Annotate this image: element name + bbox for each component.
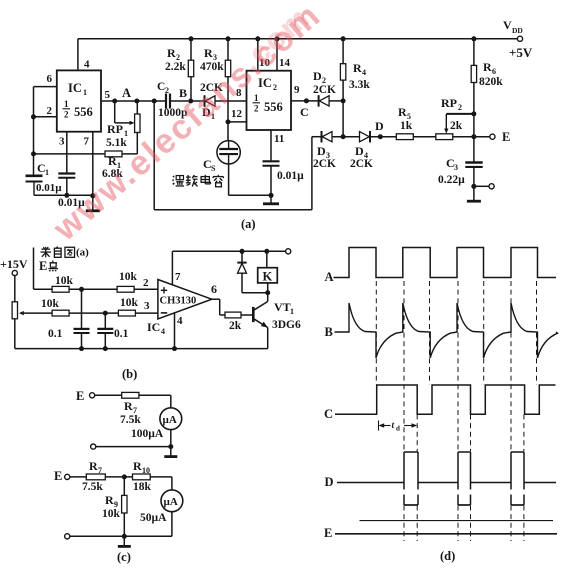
- svg-text:(a): (a): [241, 217, 256, 231]
- node A rail wire: [112, 99, 117, 104]
- capacitor 0.1 right: [104, 313, 106, 329]
- svg-text:CH3130: CH3130: [160, 296, 197, 307]
- svg-text:18k: 18k: [133, 481, 152, 493]
- waveform D baseline segments: [337, 482, 404, 484]
- svg-text:10k: 10k: [120, 297, 139, 309]
- opamp - input mark: [161, 312, 167, 314]
- wire between row1 resistors: [69, 288, 117, 290]
- wire row2 from wiper: [24, 312, 52, 314]
- wire top +5V supply rail: [78, 38, 518, 40]
- pin 4 wire IC1 to rail: [77, 39, 79, 71]
- ground lower meter circuit: [123, 536, 125, 546]
- diode D1 2CK: [204, 95, 206, 107]
- svg-text:1: 1: [64, 99, 69, 109]
- pin 10 wire: [257, 39, 259, 71]
- svg-text:1: 1: [254, 93, 259, 103]
- junction dots on supply rail: [189, 36, 194, 41]
- wire meter down: [170, 430, 172, 447]
- svg-text:+15V: +15V: [0, 257, 28, 271]
- svg-text:+5V: +5V: [509, 45, 533, 60]
- svg-text:6: 6: [47, 73, 53, 85]
- svg-text:6: 6: [492, 67, 496, 76]
- svg-text:556: 556: [74, 105, 93, 119]
- wire E to R8: [70, 476, 87, 478]
- meter uA 50uA: [161, 490, 183, 512]
- svg-text:0.1: 0.1: [48, 328, 63, 340]
- svg-text:E: E: [324, 526, 332, 540]
- svg-text:d: d: [396, 425, 400, 433]
- svg-text:DD: DD: [512, 26, 523, 35]
- svg-text:1: 1: [83, 88, 87, 97]
- wire E to R7: [95, 394, 122, 396]
- resistor R7 upper: [122, 392, 139, 398]
- resistor R4: [342, 39, 344, 64]
- svg-text:D: D: [375, 119, 384, 133]
- ground at IC1 pin 7: [92, 196, 94, 211]
- svg-text:7: 7: [84, 136, 90, 148]
- wire D3 left corner: [312, 136, 322, 138]
- opamp + input mark: [161, 289, 167, 291]
- svg-text:100µA: 100µA: [131, 428, 164, 440]
- svg-text:3: 3: [454, 163, 458, 172]
- wire top rail section b: [172, 250, 285, 252]
- wire R7 to R10: [105, 476, 132, 478]
- humidity sensor capacitor CS: [227, 122, 229, 141]
- dashed projection lines at D pulse right edges: [416, 415, 418, 452]
- wire D1 to IC2 pin8: [215, 100, 247, 102]
- capacitor C3: [465, 161, 482, 164]
- pin 11 wire: [270, 130, 272, 161]
- label shimin dianrong (humidity capacitor): [173, 176, 174, 177]
- dashed projection lines at D pulse left edges: [403, 281, 405, 452]
- svg-text:2CK: 2CK: [313, 84, 336, 96]
- svg-text:1: 1: [45, 168, 49, 177]
- svg-text:E: E: [502, 130, 510, 144]
- svg-text:R: R: [124, 399, 133, 413]
- svg-text:B: B: [325, 325, 333, 339]
- timer IC2 (1/2 556) box: [247, 71, 292, 130]
- svg-text:D: D: [317, 144, 326, 158]
- capacitor 0.01u at pin 11: [263, 160, 280, 162]
- svg-text:R: R: [353, 61, 362, 75]
- wire pot wiper arrow to row2: [19, 311, 24, 315]
- svg-text:µA: µA: [164, 496, 178, 508]
- svg-text:VT: VT: [274, 300, 291, 314]
- resistor 10k row2-a: [52, 310, 69, 316]
- svg-text:7: 7: [175, 271, 181, 283]
- svg-text:11: 11: [274, 133, 284, 145]
- wire meter2 down to rail: [171, 512, 173, 537]
- pin 14 wire: [276, 39, 278, 71]
- waveform C square wave: [335, 385, 556, 414]
- svg-text:7.5k: 7.5k: [120, 414, 141, 426]
- wire bottom of C1 caps: [34, 194, 93, 196]
- wire left vertical pin6-pin2-C1: [33, 87, 35, 176]
- wire bottom rail of section a: [154, 209, 312, 211]
- svg-text:10k: 10k: [55, 275, 74, 287]
- wire bottom rail lower circuit: [70, 535, 172, 537]
- svg-text:3: 3: [144, 300, 150, 312]
- wire R10 to meter2: [150, 476, 172, 478]
- svg-text:12: 12: [231, 108, 243, 120]
- terminal +15V: [12, 270, 17, 275]
- label laizitua (from figure a): [41, 248, 50, 250]
- svg-text:D: D: [313, 69, 322, 83]
- svg-text:4: 4: [161, 327, 165, 336]
- svg-text:6: 6: [211, 282, 217, 296]
- svg-text:9: 9: [294, 84, 300, 96]
- svg-text:7: 7: [98, 466, 102, 475]
- svg-text:10k: 10k: [102, 508, 121, 520]
- svg-text:0.01µ: 0.01µ: [36, 182, 62, 194]
- pin 7 wire down: [92, 132, 94, 196]
- node B: [188, 99, 193, 104]
- svg-text:5.1k: 5.1k: [106, 137, 127, 149]
- terminal lower upper-circuit: [91, 444, 96, 449]
- resistor 10k row1-a: [52, 286, 69, 292]
- node VDD terminal: [517, 36, 522, 41]
- meter uA 100uA: [160, 408, 182, 430]
- wire node A to RP1 wiper: [114, 101, 116, 123]
- wire R7 to meter: [139, 394, 171, 396]
- svg-text:2CK: 2CK: [350, 158, 373, 170]
- svg-text:2k: 2k: [450, 120, 463, 132]
- td delay marker: [378, 421, 380, 431]
- wire +15V down to pot: [14, 276, 16, 302]
- svg-text:2CK: 2CK: [313, 158, 336, 170]
- svg-text:50µA: 50µA: [140, 512, 167, 524]
- potentiometer RP2: [436, 134, 453, 140]
- svg-text:t: t: [392, 421, 395, 431]
- wire D3 to D4: [332, 136, 360, 138]
- svg-text:D: D: [325, 475, 334, 489]
- resistor R3: [227, 39, 229, 60]
- junction dots bottom caps: [64, 193, 69, 198]
- waveform E upper line: [360, 520, 554, 522]
- potentiometer RP1: [136, 101, 138, 114]
- svg-text:V: V: [503, 18, 512, 32]
- wire node A down to bottom rail: [153, 101, 155, 210]
- svg-text:2k: 2k: [229, 320, 242, 332]
- pin 3 wire down: [66, 132, 68, 174]
- resistor R9: [123, 477, 125, 496]
- wire to pin 3: [136, 312, 158, 314]
- svg-text:0.01µ: 0.01µ: [277, 170, 304, 182]
- wire opamp output to 2k: [212, 298, 220, 300]
- svg-text:10k: 10k: [119, 271, 138, 283]
- svg-text:2: 2: [458, 103, 462, 112]
- wire node B to D1: [191, 100, 205, 102]
- svg-text:IC: IC: [147, 320, 160, 334]
- resistor R2: [190, 39, 192, 60]
- svg-text:556: 556: [264, 100, 283, 114]
- svg-text:E: E: [76, 389, 84, 403]
- node D: [370, 136, 396, 138]
- svg-text:4: 4: [84, 59, 90, 71]
- diode D3 2CK: [321, 131, 323, 143]
- svg-text:3DG6: 3DG6: [272, 319, 301, 331]
- potentiometer input divider: [12, 302, 17, 319]
- wire RP2 to node E: [453, 136, 490, 138]
- wire between row2 resistors: [69, 312, 118, 314]
- pin 9 wire to node C: [291, 100, 319, 102]
- pin 2 wire: [34, 116, 57, 118]
- resistor R8 lower (marked R7): [86, 474, 105, 480]
- resistor 2k: [225, 312, 241, 318]
- wire right vertical to D3: [311, 137, 313, 210]
- svg-text:0.22µ: 0.22µ: [438, 174, 465, 186]
- op-amp timer IC1 (1/2 556) box: [57, 70, 101, 131]
- wire C3 to terminal: [474, 185, 489, 187]
- svg-text:R: R: [167, 46, 176, 60]
- junction pin2/pin6: [31, 114, 36, 119]
- svg-text:A: A: [325, 270, 334, 284]
- wire 2k to base: [241, 314, 252, 316]
- resistor R6: [473, 39, 475, 66]
- svg-text:(d): (d): [440, 549, 455, 563]
- ground below C3: [467, 200, 481, 203]
- resistor R1: [34, 153, 106, 155]
- svg-text:1: 1: [290, 307, 294, 316]
- svg-text:R: R: [398, 105, 407, 119]
- resistor R10: [133, 474, 151, 480]
- svg-text:µA: µA: [163, 414, 177, 426]
- svg-text:E: E: [39, 259, 47, 273]
- svg-text:2: 2: [47, 105, 53, 117]
- svg-text:K: K: [263, 270, 273, 284]
- svg-text:2: 2: [143, 277, 149, 289]
- ground upper meter circuit: [170, 447, 172, 457]
- pin 12 wire: [228, 121, 247, 123]
- svg-text:IC: IC: [68, 81, 82, 95]
- svg-text:10: 10: [142, 466, 150, 475]
- ground at IC2 pin11: [270, 195, 272, 203]
- svg-text:(b): (b): [122, 367, 137, 381]
- wire input riser from point E: [33, 248, 35, 290]
- capacitor C2: [165, 94, 167, 109]
- waveform E lower line: [335, 533, 557, 535]
- svg-text:2.2k: 2.2k: [165, 61, 186, 73]
- flyback diode across relay: [241, 251, 243, 262]
- svg-text:1k: 1k: [400, 120, 413, 132]
- svg-text:10k: 10k: [41, 298, 60, 310]
- capacitor 0.1 left: [81, 289, 83, 329]
- svg-text:S: S: [211, 164, 216, 173]
- svg-text:E: E: [54, 469, 62, 483]
- junction CS/cap ground: [268, 193, 273, 198]
- waveform B exponential wave: [335, 303, 558, 358]
- op-amp IC4 CH3130 triangle: [158, 280, 212, 319]
- wire D2 to R4 node: [329, 100, 343, 102]
- transistor VT1 3DG6: [252, 307, 255, 322]
- pin 5 wire to node A: [101, 100, 166, 102]
- diode D4 2CK: [360, 132, 370, 142]
- svg-text:2: 2: [273, 83, 277, 92]
- svg-text:(a): (a): [76, 247, 89, 259]
- svg-text:R: R: [133, 459, 142, 473]
- svg-text:5: 5: [105, 89, 111, 101]
- waveform D pulses: [403, 452, 405, 490]
- svg-text:R: R: [105, 493, 114, 507]
- junction collector node: [265, 290, 270, 295]
- svg-text:C: C: [324, 407, 333, 421]
- wire return to lower terminal: [96, 446, 171, 448]
- terminal at C3 bottom: [489, 184, 494, 189]
- svg-text:A: A: [122, 86, 131, 100]
- relay K coil box: [266, 251, 268, 267]
- svg-text:3.3k: 3.3k: [349, 79, 370, 91]
- terminal relay contact: [286, 249, 291, 254]
- pin 7 wire opamp: [171, 251, 173, 284]
- terminal lower-circuit return: [65, 534, 70, 539]
- wire bottom rail section b: [15, 348, 268, 350]
- svg-text:0.1: 0.1: [114, 328, 129, 340]
- svg-text:D: D: [355, 144, 364, 158]
- svg-text:2: 2: [165, 86, 169, 95]
- junction C3 bottom: [471, 184, 476, 189]
- wire row1 to op-amp pin2: [34, 288, 53, 290]
- svg-text:820k: 820k: [479, 76, 503, 88]
- node C: [304, 98, 309, 103]
- dashed projection lines at A edges: [375, 281, 377, 385]
- node E terminal: [490, 134, 495, 139]
- resistor R5: [396, 134, 413, 140]
- pin 6 wire: [34, 86, 57, 88]
- svg-text:4: 4: [177, 315, 183, 327]
- svg-text:R: R: [89, 459, 98, 473]
- svg-text:2: 2: [254, 104, 259, 114]
- svg-text:C: C: [300, 105, 309, 119]
- svg-text:R: R: [483, 60, 492, 74]
- waveform A square wave: [334, 248, 557, 278]
- svg-text:(c): (c): [117, 550, 131, 564]
- svg-text:3: 3: [59, 136, 65, 148]
- svg-text:4: 4: [362, 68, 366, 77]
- svg-text:RP: RP: [441, 96, 457, 110]
- capacitor 0.01u at pin 3: [58, 172, 75, 174]
- wire to pin 2: [134, 288, 158, 290]
- pin 4 wire opamp: [174, 313, 176, 349]
- svg-text:R: R: [204, 46, 213, 60]
- resistor 10k row1-b: [117, 286, 134, 292]
- resistor 10k row2-b: [118, 310, 135, 316]
- svg-text:2: 2: [64, 110, 69, 120]
- capacitor C1: [26, 175, 43, 178]
- svg-text:RP: RP: [107, 122, 123, 136]
- svg-text:7.5k: 7.5k: [82, 481, 103, 493]
- diode D2 2CK: [318, 95, 320, 107]
